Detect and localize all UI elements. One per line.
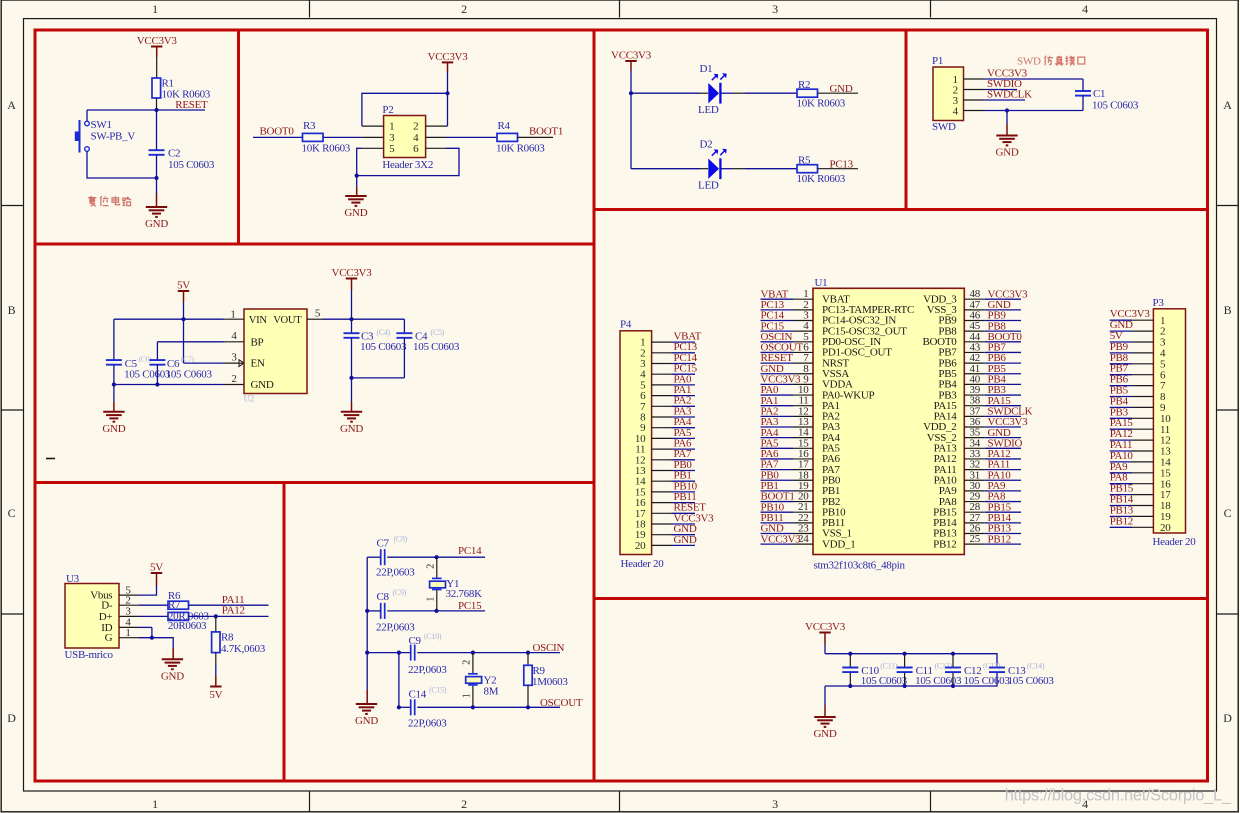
wire xyxy=(437,556,486,558)
P4 pin 5 xyxy=(652,384,672,386)
wire pin6 loop xyxy=(357,148,459,175)
svg-text:R4: R4 xyxy=(498,120,511,132)
pin 33 PA12 xyxy=(964,458,985,460)
svg-text:4: 4 xyxy=(1082,2,1088,16)
junction xyxy=(155,382,159,386)
svg-text:U3: U3 xyxy=(66,573,80,585)
wire xyxy=(189,604,269,606)
svg-text:2: 2 xyxy=(461,797,467,811)
wire xyxy=(387,556,436,558)
P3 pin 10 xyxy=(1132,417,1153,419)
svg-text:EN: EN xyxy=(251,358,265,370)
junction xyxy=(154,176,158,180)
capacitor C1 xyxy=(1082,79,1084,91)
pin 39 PB3 xyxy=(964,394,985,396)
svg-text:1: 1 xyxy=(389,121,394,133)
pin 7 NRST xyxy=(793,362,813,364)
svg-text:(C12): (C12) xyxy=(935,662,953,671)
svg-text:SWD: SWD xyxy=(1017,56,1041,68)
wire xyxy=(253,136,303,138)
svg-text:VOUT: VOUT xyxy=(273,315,302,326)
capacitor C7 xyxy=(380,549,382,565)
svg-text:GND: GND xyxy=(674,534,697,546)
pin 18 PB0 xyxy=(793,479,813,481)
svg-text:R8: R8 xyxy=(221,632,234,644)
svg-text:1: 1 xyxy=(152,797,158,811)
resistor R8 xyxy=(215,616,217,632)
junction xyxy=(365,651,369,655)
pin 9 VDDA xyxy=(793,383,813,385)
pin 21 PB10 xyxy=(793,511,813,513)
P4 pin 18 xyxy=(652,523,672,525)
svg-text:C9: C9 xyxy=(409,635,422,647)
svg-text:OSCIN: OSCIN xyxy=(533,642,565,654)
svg-text:(C9): (C9) xyxy=(393,588,407,597)
wire left link vertical xyxy=(398,653,400,708)
svg-text:GND: GND xyxy=(102,423,125,435)
P3 pin 18 xyxy=(1132,505,1153,507)
wire PC15 row xyxy=(367,610,380,612)
ground (swd) xyxy=(996,135,1017,137)
wire pin5 to gnd xyxy=(357,148,362,175)
wire top rail xyxy=(825,654,997,667)
wire BP row xyxy=(157,341,223,343)
svg-text:G: G xyxy=(105,632,113,644)
crystal Y1 xyxy=(436,557,438,578)
svg-text:R3: R3 xyxy=(303,120,316,132)
wire xyxy=(518,136,554,138)
svg-text:1: 1 xyxy=(230,309,235,321)
capacitor C8 xyxy=(380,603,382,619)
wire xyxy=(1006,111,1008,125)
pin 6 PD1-OSC_OUT xyxy=(793,351,813,353)
LED D1 xyxy=(708,83,719,103)
svg-text:5: 5 xyxy=(315,308,321,320)
pin 36 VDD_2 xyxy=(964,426,985,428)
pin 31 PA10 xyxy=(964,479,985,481)
title reset circuit xyxy=(88,196,96,206)
wire xyxy=(215,653,217,665)
resistor R6 xyxy=(168,612,189,620)
wire xyxy=(437,610,486,612)
wire xyxy=(631,92,700,94)
svg-text:20: 20 xyxy=(1160,522,1171,534)
junction xyxy=(445,91,449,95)
P3 pin 8 xyxy=(1132,396,1153,398)
P3 pin 3 xyxy=(1132,341,1153,343)
wire xyxy=(447,72,449,93)
capacitor C5 xyxy=(113,319,115,360)
ground (reset) xyxy=(146,206,167,208)
svg-text:GND: GND xyxy=(814,728,837,740)
pin 17 PA7 xyxy=(793,469,813,471)
pin 20 PB2 xyxy=(793,501,813,503)
svg-text:GND: GND xyxy=(996,147,1019,159)
svg-text:SWDCLK: SWDCLK xyxy=(987,89,1032,101)
pin 30 PA9 xyxy=(964,490,985,492)
P3 pin 20 xyxy=(1132,526,1153,528)
P4 pin 13 xyxy=(652,470,672,472)
capacitor C6 xyxy=(156,342,158,360)
pin 24 VDD_1 xyxy=(793,543,813,545)
P3 pin 9 xyxy=(1132,406,1153,408)
svg-text:2: 2 xyxy=(461,660,472,665)
P4 pin 14 xyxy=(652,480,672,482)
svg-text:105 C0603: 105 C0603 xyxy=(413,341,460,353)
svg-text:PB12: PB12 xyxy=(1110,515,1133,527)
svg-text:B: B xyxy=(1224,303,1232,317)
wire xyxy=(722,92,734,94)
junction xyxy=(154,108,158,112)
wire xyxy=(189,615,269,617)
svg-text:1: 1 xyxy=(152,2,158,16)
svg-text:105 C0603: 105 C0603 xyxy=(168,159,215,171)
svg-text:GND: GND xyxy=(830,83,853,95)
wire pin1 VCC3V3 xyxy=(984,78,1083,80)
resistor R1 xyxy=(152,78,161,98)
svg-text:22P,0603: 22P,0603 xyxy=(408,664,447,676)
pin 34 PA13 xyxy=(964,447,985,449)
wire xyxy=(387,610,436,612)
capacitor C14 xyxy=(410,699,412,715)
header P3 xyxy=(1153,309,1185,533)
svg-text:PB12: PB12 xyxy=(933,538,956,550)
resistor R4 xyxy=(497,133,518,141)
junction xyxy=(397,651,401,655)
svg-text:U1: U1 xyxy=(815,277,828,289)
svg-text:BP: BP xyxy=(251,336,264,348)
pin 1 VBAT xyxy=(793,298,813,300)
wire xyxy=(818,92,859,94)
P3 pin 15 xyxy=(1132,472,1153,474)
svg-text:C7: C7 xyxy=(377,538,390,550)
svg-text:P4: P4 xyxy=(620,319,632,331)
switch SW1 xyxy=(85,121,90,126)
svg-text:A: A xyxy=(7,98,16,112)
svg-text:1: 1 xyxy=(461,693,472,698)
microcontroller U1 xyxy=(813,288,964,554)
junction xyxy=(365,609,369,613)
pin 25 PB12 xyxy=(964,543,985,545)
P3 pin 5 xyxy=(1132,363,1153,365)
P3 pin 19 xyxy=(1132,515,1153,517)
wire PC14 row xyxy=(367,556,380,558)
wire GND row xyxy=(114,384,224,386)
svg-text:VCC3V3: VCC3V3 xyxy=(761,533,802,545)
capacitor C12 xyxy=(952,654,954,667)
P4 pin 3 xyxy=(652,363,672,365)
pin 43 PB7 xyxy=(964,351,985,353)
wire xyxy=(172,648,174,659)
wire pin2 xyxy=(984,89,1017,91)
junction xyxy=(355,174,359,178)
ground (reg left) xyxy=(103,411,124,413)
wire xyxy=(356,176,358,187)
wire xyxy=(417,652,560,654)
crystal Y2 xyxy=(472,653,474,674)
wire xyxy=(824,686,826,705)
P4 pin 1 xyxy=(652,341,672,343)
svg-text:OSCOUT: OSCOUT xyxy=(540,697,583,709)
ground (caps) xyxy=(814,716,835,718)
svg-text:105 C0603: 105 C0603 xyxy=(1008,675,1055,687)
resistor R5 xyxy=(797,165,818,173)
svg-text:4: 4 xyxy=(231,330,237,342)
capacitor C11 xyxy=(904,654,906,667)
P3 pin 12 xyxy=(1132,439,1153,441)
P3 pin 4 xyxy=(1132,352,1153,354)
junction xyxy=(471,705,475,709)
capacitor C3 xyxy=(351,319,353,333)
capacitor C2 xyxy=(156,110,158,150)
wire VOUT row xyxy=(307,318,323,320)
wire pin2 drop xyxy=(447,93,449,126)
svg-text:2: 2 xyxy=(425,564,436,569)
wire EN row xyxy=(184,362,224,364)
junction xyxy=(397,705,401,709)
svg-text:PA12: PA12 xyxy=(222,605,245,617)
svg-text:PC13: PC13 xyxy=(830,159,854,171)
svg-text:GND: GND xyxy=(145,218,168,230)
svg-text:LED: LED xyxy=(698,104,719,116)
svg-text:105 C0603: 105 C0603 xyxy=(964,675,1011,687)
svg-text:D: D xyxy=(7,711,16,725)
resistor R3 xyxy=(303,133,324,141)
pin 46 PB9 xyxy=(964,320,985,322)
P4 pin 7 xyxy=(652,405,672,407)
svg-text:SWD: SWD xyxy=(932,121,956,133)
pin 44 BOOT0 xyxy=(964,341,985,343)
svg-text:(C7): (C7) xyxy=(181,355,194,364)
P4 pin 15 xyxy=(652,491,672,493)
P3 pin 17 xyxy=(1132,494,1153,496)
P4 pin 4 xyxy=(652,373,672,375)
wire xyxy=(87,152,157,179)
svg-text:105 C0603: 105 C0603 xyxy=(1092,100,1139,112)
P3 pin 7 xyxy=(1132,385,1153,387)
svg-text:Header 20: Header 20 xyxy=(621,558,665,570)
pin 28 PB15 xyxy=(964,511,985,513)
P3 pin 16 xyxy=(1132,483,1153,485)
svg-text:5V: 5V xyxy=(209,689,222,701)
svg-text:C8: C8 xyxy=(377,591,390,603)
svg-text:2: 2 xyxy=(413,121,418,133)
power 5V (usb low) xyxy=(210,686,221,688)
P3 pin 11 xyxy=(1132,428,1153,430)
svg-text:BOOT0: BOOT0 xyxy=(260,126,295,138)
svg-text:C2: C2 xyxy=(168,148,180,160)
svg-text:GND: GND xyxy=(344,207,367,219)
svg-text:VCC3V3: VCC3V3 xyxy=(611,50,652,62)
svg-text:SW1: SW1 xyxy=(91,119,112,131)
svg-text:2: 2 xyxy=(461,2,467,16)
pin lines P2 xyxy=(362,125,384,127)
wire xyxy=(323,136,362,138)
svg-text:1M0603: 1M0603 xyxy=(532,676,568,688)
svg-text:VCC3V3: VCC3V3 xyxy=(805,621,846,633)
svg-text:VCC3V3: VCC3V3 xyxy=(428,51,469,63)
wire xyxy=(156,57,158,78)
connector U3 xyxy=(65,584,119,649)
svg-text:10K R0603: 10K R0603 xyxy=(797,98,846,110)
pin 3 PC14-OSC32_IN xyxy=(793,320,813,322)
junction xyxy=(112,382,116,386)
wire VIN row xyxy=(114,318,224,320)
P4 pin 8 xyxy=(652,416,672,418)
svg-text:105 C0603: 105 C0603 xyxy=(861,675,908,687)
wire xyxy=(113,385,115,403)
pin 37 PA14 xyxy=(964,415,985,417)
svg-text:1: 1 xyxy=(425,597,436,602)
svg-text:Header 3X2: Header 3X2 xyxy=(382,159,433,171)
wire xyxy=(366,690,368,704)
svg-text:R7: R7 xyxy=(168,599,181,611)
svg-text:C: C xyxy=(8,506,16,520)
svg-text:3: 3 xyxy=(772,2,778,16)
junction xyxy=(471,651,475,655)
resistor R7 xyxy=(168,601,189,609)
pin 22 PB11 xyxy=(793,522,813,524)
svg-text:PC15: PC15 xyxy=(458,600,482,612)
wire D- row xyxy=(139,604,168,606)
pin 13 PA3 xyxy=(793,426,813,428)
pin 2 PC13-TAMPER-RTC xyxy=(793,309,813,311)
svg-text:20R0603: 20R0603 xyxy=(168,620,207,632)
pin 10 PA0-WKUP xyxy=(793,394,813,396)
svg-text:10K R0603: 10K R0603 xyxy=(797,173,846,185)
wire xyxy=(824,645,826,654)
pin 14 PA4 xyxy=(793,437,813,439)
pin 26 PB13 xyxy=(964,533,985,535)
wire RESET row xyxy=(87,109,205,111)
pin 48 VDD_3 xyxy=(964,298,985,300)
svg-text:stm32f103c8t6_48pin: stm32f103c8t6_48pin xyxy=(814,559,906,571)
junction xyxy=(349,376,353,380)
svg-text:4.7K,0603: 4.7K,0603 xyxy=(221,643,266,655)
LED D2 xyxy=(708,159,719,179)
header P2 xyxy=(384,116,426,158)
svg-text:VCC3V3: VCC3V3 xyxy=(332,267,373,279)
svg-text:P1: P1 xyxy=(932,55,943,67)
svg-text:P3: P3 xyxy=(1153,297,1165,309)
svg-text:D1: D1 xyxy=(700,63,713,75)
wire pin3 xyxy=(984,99,1025,101)
wire xyxy=(156,178,158,193)
svg-text:8M: 8M xyxy=(484,685,499,697)
svg-text:(C14): (C14) xyxy=(1027,662,1045,671)
pin 29 PA8 xyxy=(964,501,985,503)
junction xyxy=(526,705,530,709)
svg-text:D2: D2 xyxy=(700,138,713,150)
svg-text:D: D xyxy=(1223,711,1232,725)
svg-text:R5: R5 xyxy=(798,155,811,167)
svg-text:C: C xyxy=(1224,506,1232,520)
P4 pin 17 xyxy=(652,512,672,514)
svg-text:105 C0603: 105 C0603 xyxy=(166,368,213,380)
stray dash xyxy=(46,458,55,460)
wire xyxy=(417,706,560,708)
junction xyxy=(181,317,185,321)
junction xyxy=(214,614,218,618)
junction xyxy=(1005,108,1009,112)
P4 pin 16 xyxy=(652,502,672,504)
junction xyxy=(629,91,633,95)
wire ID drop xyxy=(139,626,152,628)
header P1 xyxy=(933,67,964,121)
svg-text:3: 3 xyxy=(772,797,778,811)
svg-text:R2: R2 xyxy=(798,79,810,91)
pin 15 PA5 xyxy=(793,447,813,449)
svg-text:(C8): (C8) xyxy=(394,535,408,544)
svg-text:PB12: PB12 xyxy=(988,533,1011,545)
svg-text:VCC3V3: VCC3V3 xyxy=(137,35,178,47)
P3 pin 2 xyxy=(1132,330,1153,332)
capacitor C4 xyxy=(403,319,405,333)
svg-text:32.768K: 32.768K xyxy=(446,588,483,600)
pin 11 PA1 xyxy=(793,405,813,407)
wire G row xyxy=(139,638,173,648)
svg-text:6: 6 xyxy=(413,143,419,155)
pin 40 PB4 xyxy=(964,383,985,385)
pin 5 PD0-OSC_IN xyxy=(793,341,813,343)
wire xyxy=(818,168,859,170)
P3 pin 6 xyxy=(1132,374,1153,376)
P4 pin 9 xyxy=(652,427,672,429)
P4 pin 11 xyxy=(652,448,672,450)
wire xyxy=(86,110,88,121)
pin 32 PA11 xyxy=(964,469,985,471)
svg-text:https://blog.csdn.net/Scorpio_: https://blog.csdn.net/Scorpio_L_ xyxy=(1005,787,1232,805)
ground (boot) xyxy=(345,195,366,197)
svg-text:10K R0603: 10K R0603 xyxy=(496,143,545,155)
svg-text:10K R0603: 10K R0603 xyxy=(302,143,351,155)
svg-text:BOOT1: BOOT1 xyxy=(529,126,563,138)
svg-text:(C13): (C13) xyxy=(983,662,1001,671)
capacitor C10 xyxy=(849,654,851,667)
P4 pin 10 xyxy=(652,437,672,439)
svg-text:P2: P2 xyxy=(382,104,393,116)
wire pin4 xyxy=(446,136,497,138)
pin 4 PC15-OSC32_OUT xyxy=(793,330,813,332)
junction xyxy=(526,651,530,655)
svg-text:VDD_1: VDD_1 xyxy=(822,538,855,550)
svg-text:GND: GND xyxy=(251,379,274,391)
svg-text:5V: 5V xyxy=(150,562,163,574)
ground (osc) xyxy=(356,703,377,705)
P4 pin 12 xyxy=(652,459,672,461)
svg-text:(C10): (C10) xyxy=(424,632,442,641)
svg-text:C1: C1 xyxy=(1093,88,1105,100)
P3 pin 1 xyxy=(1132,319,1153,321)
pin 23 VSS_1 xyxy=(793,533,813,535)
header P4 xyxy=(620,331,652,555)
svg-text:(C4): (C4) xyxy=(377,328,391,337)
ground (usb) xyxy=(162,658,183,660)
junction xyxy=(349,317,353,321)
svg-text:GND: GND xyxy=(161,670,184,682)
P4 pin 20 xyxy=(652,544,672,546)
svg-text:(C11): (C11) xyxy=(880,662,898,671)
wire 5V vertical xyxy=(183,302,185,363)
ground (reg right) xyxy=(341,411,362,413)
wire xyxy=(139,586,157,595)
pin 38 PA15 xyxy=(964,405,985,407)
junction xyxy=(150,636,154,640)
svg-text:SW-PB_V: SW-PB_V xyxy=(91,131,136,143)
svg-text:5: 5 xyxy=(389,143,395,155)
wire pin1 loop xyxy=(362,93,448,126)
svg-text:20: 20 xyxy=(635,540,646,552)
